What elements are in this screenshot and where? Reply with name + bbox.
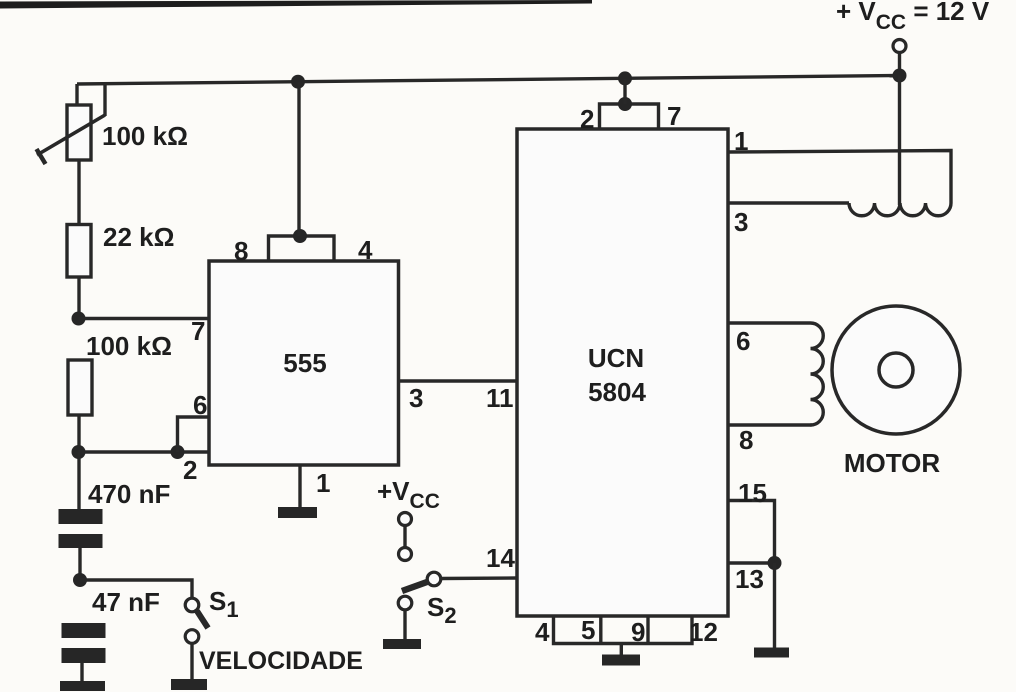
capacitor C2 47nF plate 1 [62,623,106,638]
node C junction [73,573,87,587]
wire S1 to ground [190,644,193,680]
wire node C to switch S1 [80,580,192,598]
svg-text:15: 15 [738,478,767,508]
S2 Vcc terminal lower [399,548,412,561]
S2 Vcc terminal upper [399,513,412,526]
power bus wire [77,76,900,85]
wire strap to ground [620,644,623,655]
potentiometer wiper arrow [37,115,105,155]
wire junction up to 555 pin 6 [178,417,210,452]
node on 555 strap [293,229,307,243]
+Vcc terminal [893,40,906,53]
svg-text:+ VCC = 12 V: + VCC = 12 V [836,0,990,34]
ground (C2) [60,681,105,691]
capacitor C2 47nF plate 2 [62,648,106,663]
resistor R2 22k [67,225,91,278]
svg-text:8: 8 [234,236,248,266]
node on UCN strap [618,97,632,111]
svg-text:7: 7 [667,101,681,131]
svg-text:7: 7 [191,316,205,346]
wire UCN pin 1 to winding [728,151,951,204]
UCN pins 4-5-9-12 strap [554,616,693,644]
switch S1 lever [197,611,208,628]
svg-text:13: 13 [735,564,764,594]
wire pot to R2 [77,160,80,225]
ground (pin 13) [754,648,789,658]
svg-text:MOTOR: MOTOR [844,448,941,478]
wire Vcc terminal to bus [898,53,901,77]
svg-text:22 kΩ: 22 kΩ [103,222,174,252]
wire node A to 555 pin 7 [79,317,210,320]
potentiometer P1 100k body [67,105,91,160]
wire S2 to UCN pin 14 [441,576,518,580]
svg-text:470 nF: 470 nF [88,479,170,509]
wire UCN pin 6 to winding [728,321,811,324]
resistor R3 100k [68,360,92,415]
strap stub pin 5 [599,616,602,644]
svg-text:100 kΩ: 100 kΩ [102,121,188,151]
potentiometer wiper end tick [37,149,46,164]
IC U2 UCN5804 body [517,129,728,616]
capacitor C1 470nF plate 1 [59,509,103,524]
switch S2 lever [402,582,427,591]
svg-text:100 kΩ: 100 kΩ [86,331,172,361]
motor shaft [879,353,913,387]
junction on pin2 wire [171,445,185,459]
wire R3 to node B [77,415,80,452]
wire S2 to ground [403,610,406,639]
svg-text:4: 4 [358,235,373,265]
svg-text:11: 11 [486,383,514,413]
svg-text:3: 3 [409,383,423,413]
wire UCN pin 13 [728,561,775,564]
wire node B to C1 [77,452,80,510]
strap stub pin 9 [646,616,649,644]
node A junction [72,312,86,326]
wire UCN pin 15 [728,501,775,564]
wire C1 to node C [78,548,81,580]
svg-text:S1: S1 [209,586,239,622]
wire node B to 555 pin 2 [79,450,210,453]
svg-text:14: 14 [486,543,515,573]
svg-text:4: 4 [535,617,550,647]
wire bus to UCN strap [623,78,626,104]
wire wiper to bus [103,84,106,116]
svg-text:6: 6 [193,390,207,420]
node pin13/15 junction [768,556,782,570]
node on bus (UCN Vcc) [618,71,632,85]
capacitor C1 470nF plate 2 [59,534,103,548]
switch S2 moving contact [427,572,441,586]
svg-text:2: 2 [183,455,197,485]
node B junction [72,445,86,459]
winding L1 [849,203,951,216]
svg-text:6: 6 [736,326,750,356]
svg-text:5: 5 [581,615,595,645]
svg-text:S2: S2 [427,592,457,628]
svg-text:+VCC: +VCC [377,476,440,513]
switch S1 bottom contact [185,630,199,644]
switch S2 fixed contact [398,596,412,610]
wire junction to ground [773,563,776,648]
node on bus (supply entry) [893,69,907,83]
scan page-edge artifact [0,0,592,9]
svg-text:1: 1 [734,126,748,156]
svg-text:3: 3 [734,207,748,237]
svg-text:8: 8 [739,425,753,455]
svg-text:47 nF: 47 nF [92,587,160,617]
ground (4-5-9-12) [602,655,640,666]
svg-text:1: 1 [316,468,330,498]
555 pins 8-4 strap [269,236,335,261]
svg-text:2: 2 [580,104,594,134]
wire supply node to winding centre tap [898,76,901,206]
svg-text:12: 12 [689,617,718,647]
svg-text:9: 9 [631,617,645,647]
ground (S2) [383,639,421,649]
node on bus (555 Vcc) [291,75,305,89]
ground (S1) [171,679,207,690]
wire UCN pin 3 to winding [728,201,849,204]
svg-text:VELOCIDADE: VELOCIDADE [199,647,363,675]
wire bus to 555 strap [297,82,300,236]
wire C2 to ground [80,663,83,681]
IC U1 555 body [209,261,399,465]
wire bus to potentiometer top [75,84,78,106]
svg-text:5804: 5804 [588,377,646,407]
wire R2 to node A [77,277,80,319]
svg-text:UCN: UCN [588,343,644,373]
switch S1 top contact [185,598,199,612]
ground (555 pin 1) [278,507,317,518]
svg-text:555: 555 [283,348,326,378]
wire 555 pin 3 to UCN pin 11 [399,379,518,382]
UCN pins 2-7 strap [600,104,659,129]
wire S2 terminal link [403,526,406,549]
winding L2 [811,323,824,425]
motor body [832,306,960,434]
wire 555 pin 1 to ground [298,465,301,507]
wire UCN pin 8 to winding [728,423,812,426]
